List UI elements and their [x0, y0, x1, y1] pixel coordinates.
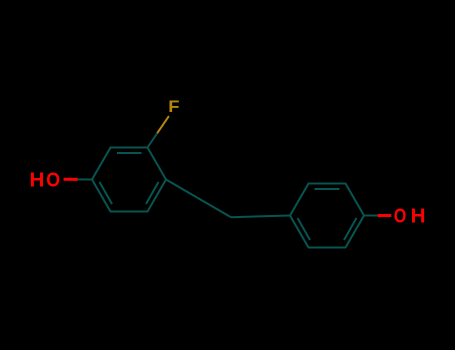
chain bond b: [231, 216, 290, 218]
bond C-O left (carbon half): [78, 178, 92, 180]
bond C-F (carbon half): [148, 133, 158, 147]
chain bond a: [166, 180, 231, 218]
svg-text:F: F: [168, 98, 179, 116]
svg-text:O: O: [46, 169, 60, 192]
double bond inner top: [117, 152, 142, 154]
double bond inner left-lower: [100, 182, 113, 204]
C-F gold half: [157, 116, 169, 133]
O-H bond red half left: [64, 178, 78, 181]
O-H bond red half right: [378, 214, 392, 217]
svg-text:H: H: [30, 169, 45, 192]
benzene ring left: [78, 133, 290, 217]
double bond inner right-lower: [146, 182, 159, 204]
svg-text:H: H: [411, 204, 426, 227]
bond C-O right (carbon half): [364, 215, 378, 217]
benzene ring right: [290, 184, 378, 248]
svg-text:O: O: [394, 204, 406, 227]
